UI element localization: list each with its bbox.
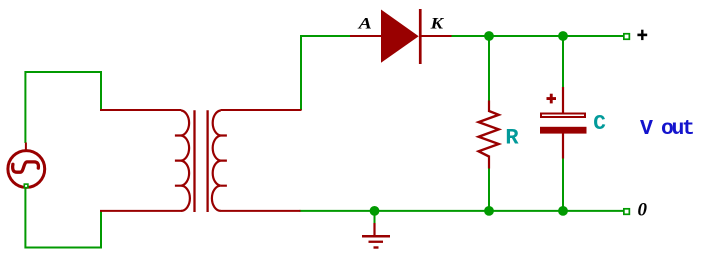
terminal + square: [624, 34, 630, 40]
AC source V1 circle: [8, 151, 45, 188]
capacitor C bottom plate: [540, 127, 587, 134]
wire capacitor top stub red: [562, 87, 564, 113]
svg-text:C: C: [593, 113, 606, 136]
capacitor C top plate: [541, 114, 585, 118]
transformer T1 primary winding: [181, 110, 190, 210]
wire resistor bottom lead green: [488, 168, 490, 211]
wire ground stub green: [374, 211, 376, 224]
wire secondary top to diode anode: [301, 36, 351, 110]
junction dot top rail at capacitor: [558, 31, 568, 41]
resistor R zigzag: [479, 111, 499, 157]
wire resistor bottom stub red: [488, 156, 490, 169]
transformer core line left: [193, 110, 195, 212]
terminal 0 square: [624, 209, 630, 215]
svg-text:A: A: [357, 15, 372, 32]
wire secondary top red: [221, 109, 302, 111]
wire top-left loop from source to transformer primary: [25, 72, 101, 143]
wire diode cathode lead red: [421, 35, 452, 37]
capacitor plus sign: [547, 97, 557, 100]
transformer primary cusp ticks: [175, 136, 181, 186]
wire resistor top stub red: [488, 101, 490, 113]
junction dot bottom rail at ground: [370, 206, 380, 216]
AC source bottom pin square: [24, 184, 28, 188]
wire primary bottom red: [100, 210, 181, 212]
junction dot top rail at resistor: [484, 31, 494, 41]
wire resistor top lead green: [488, 36, 490, 102]
svg-text:V out: V out: [640, 117, 693, 141]
wire capacitor bottom lead green: [562, 158, 564, 211]
junction dot bottom rail at resistor: [484, 206, 494, 216]
diode D1 cathode bar: [419, 9, 422, 64]
svg-text:0: 0: [638, 200, 648, 221]
transformer T1 secondary winding: [212, 110, 221, 210]
wire capacitor bottom stub red: [562, 133, 564, 159]
diode D1 triangle: [381, 10, 419, 63]
wire ground stub red: [373, 223, 375, 236]
transformer secondary cusp ticks: [221, 136, 227, 186]
AC source sine symbol: [13, 162, 39, 172]
transformer core line right: [206, 110, 208, 212]
wire bottom rail: [300, 210, 624, 212]
wire secondary bottom red: [221, 210, 301, 212]
wire primary top red: [100, 109, 181, 111]
ground symbol: [362, 235, 390, 238]
wire capacitor top lead green: [562, 36, 564, 88]
label + (black): [637, 34, 647, 37]
svg-text:R: R: [505, 125, 519, 150]
wire bottom-left loop from source to transformer primary: [25, 188, 101, 248]
wire cathode to + terminal: [451, 35, 624, 37]
svg-text:K: K: [429, 15, 444, 32]
wire source top stub red: [25, 143, 27, 152]
wire diode anode lead red: [350, 35, 382, 37]
junction dot bottom rail at capacitor: [558, 206, 568, 216]
